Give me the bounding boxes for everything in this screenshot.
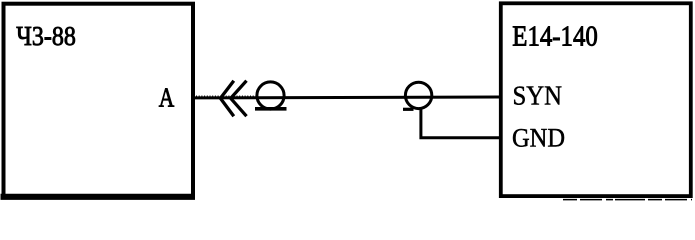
svg-text:А: А — [159, 83, 175, 114]
svg-text:Ч3-88: Ч3-88 — [16, 20, 76, 51]
coax connector X1 base — [255, 107, 287, 111]
cable plug chevron 2 — [231, 81, 247, 117]
wire scan serration — [196, 95, 258, 97]
svg-text:Е14-140: Е14-140 — [512, 22, 598, 53]
coax connector X2 shield tab — [403, 108, 414, 111]
coax connector X2 circle — [405, 82, 431, 108]
coax connector X1 circle — [257, 82, 284, 109]
svg-text:SYN: SYN — [513, 81, 563, 111]
ground drop wire — [421, 108, 499, 138]
scan noise under box E14-140 — [563, 199, 692, 201]
cable plug chevron 1 — [220, 81, 233, 117]
wire A to SYN — [195, 96, 499, 100]
instrument box Ч3-88 — [4, 4, 194, 197]
box Ч3-88 bottom edge (thicker) — [1, 194, 196, 200]
instrument box E14-140 — [501, 3, 691, 196]
svg-text:GND: GND — [512, 123, 565, 153]
